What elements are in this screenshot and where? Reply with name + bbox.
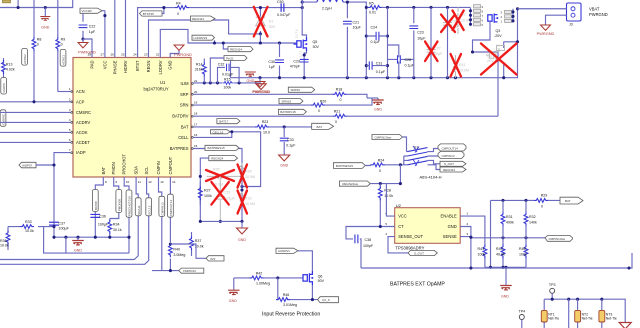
svg-text:3V3: 3V3: [210, 257, 216, 261]
svg-text:ENABLE: ENABLE: [441, 214, 457, 219]
wire: PMON pin9 route: [110, 177, 119, 237]
wire: CMPIN13sw to S1 pole1: [403, 137, 408, 152]
svg-text:C38: C38: [365, 238, 372, 242]
svg-text:C37: C37: [59, 222, 66, 226]
wire: ACDET row: [0, 141, 73, 143]
capacitor C35 0.01uF (DNI) column: [219, 176, 221, 221]
resistor R26 10.0M (DNI): [240, 163, 244, 177]
wire: Q4 source to bus: [503, 62, 505, 78]
svg-text:R34: R34: [113, 223, 120, 227]
DNI X over R30: [238, 191, 248, 214]
wire: CELL row: [193, 132, 232, 138]
svg-text:ACDRV: ACDRV: [76, 120, 91, 125]
svg-text:0: 0: [37, 43, 39, 47]
svg-text:BAT: BAT: [181, 124, 189, 129]
DNI X over C35: [211, 182, 228, 205]
wire: SCL pin12 route: [0, 177, 149, 264]
U1 pin stub circles right: [191, 83, 193, 150]
svg-text:R21: R21: [334, 109, 341, 113]
net label BATPRES15 (S1 row): [333, 163, 365, 169]
svg-text:S_OUT: S_OUT: [414, 252, 424, 256]
svg-text:VCC: VCC: [102, 60, 107, 69]
svg-text:13: 13: [160, 180, 164, 184]
svg-text:Input Reverse Protection: Input Reverse Protection: [262, 312, 320, 318]
wire: J3 pin2 to PWRGND: [546, 15, 567, 24]
svg-text:R29: R29: [541, 194, 548, 198]
wire: rail to ground: [241, 221, 243, 227]
svg-text:C21: C21: [353, 21, 360, 25]
svg-text:U1: U1: [160, 80, 166, 85]
wire: BATDRV row to Q3 gate riser: [193, 115, 498, 117]
svg-text:REGN24: REGN24: [211, 156, 223, 160]
svg-text:R4: R4: [176, 2, 181, 6]
svg-text:ACN: ACN: [76, 89, 85, 94]
resistor R20 0: [311, 103, 325, 107]
ground GND (SRP/SRN filter): [377, 98, 379, 100]
wire: BATPRES row: [193, 149, 242, 222]
node: ACP/R8 junction: [32, 100, 35, 103]
svg-text:18: 18: [194, 112, 198, 116]
svg-text:R25: R25: [213, 168, 220, 172]
DNI X over R11: [451, 54, 462, 77]
svg-text:CMSRC: CMSRC: [2, 113, 6, 125]
svg-text:-20V: -20V: [486, 59, 494, 63]
resistor R8 0: [32, 37, 36, 51]
U1 top pin names (rotated): [90, 60, 173, 75]
svg-text:1.00Meg: 1.00Meg: [256, 281, 270, 285]
port BAT (right): [560, 197, 583, 204]
wire: U2 VCC pin 6: [386, 184, 394, 217]
svg-text:100k: 100k: [478, 253, 486, 257]
resistor R23 10.0: [255, 125, 269, 129]
net label CELL16: [211, 130, 231, 135]
svg-text:Q6: Q6: [318, 274, 323, 278]
svg-text:PHASE: PHASE: [112, 60, 117, 74]
capacitor C22 1uF: [79, 25, 88, 28]
svg-text:R36: R36: [0, 239, 7, 243]
svg-text:0: 0: [177, 12, 179, 16]
ground GND below top bus: [44, 8, 46, 17]
capacitor C50 0.047uF: [281, 3, 284, 11]
resistor R28 10.0k column: [379, 184, 381, 227]
transistor Q3 -20V source pin block: [474, 5, 484, 27]
wire: column x=366.3: [365, 7, 367, 77]
ground GND (ILIM filter): [245, 72, 256, 76]
wire: J3 pin1: [518, 8, 567, 10]
DNI X over R26: [238, 165, 248, 188]
wire: ACP pin wire to x=0: [0, 101, 73, 103]
port BAT: [312, 123, 334, 129]
svg-text:10.0k: 10.0k: [384, 194, 393, 198]
svg-text:470pF: 470pF: [290, 65, 301, 69]
capacitor C32 0.01uF parallel branch: [218, 67, 240, 83]
svg-text:R37: R37: [195, 239, 202, 243]
svg-text:ACDRVx: ACDRVx: [278, 249, 290, 253]
net label BTST25: [140, 11, 163, 16]
wire: CMPOUT pin14 route: [169, 177, 171, 271]
wire: riser x=568.7: [568, 299, 570, 328]
svg-text:D1: D1: [269, 20, 274, 24]
svg-text:ACOK: ACOK: [76, 130, 88, 135]
svg-text:PWRGND: PWRGND: [537, 31, 555, 36]
svg-text:GND: GND: [238, 238, 246, 242]
net label CMPIN13sw: [372, 135, 403, 140]
diode D1 30V (DNI, grey) column: [259, 8, 261, 34]
diode D1 symbol grey: [256, 17, 265, 26]
wire: BATPRES15 to R24 to S1 pole4: [365, 164, 407, 167]
svg-text:23: 23: [144, 53, 148, 57]
wire: C22 column: [82, 13, 84, 39]
net label ACNE1 (vertical): [60, 49, 66, 66]
capacitor C21 10uF column: [346, 2, 348, 78]
resistor R4 0: [175, 6, 189, 10]
net-tie NT2: [577, 299, 579, 328]
resistor R40 3.0Meg: [169, 243, 173, 257]
wire: U2 SENSE pin 3 run: [460, 237, 545, 238]
svg-text:ACDET: ACDET: [76, 140, 90, 145]
net label IADP07: [19, 162, 36, 168]
net label Q1_S: [318, 297, 339, 303]
svg-text:3.01Meg: 3.01Meg: [283, 303, 297, 307]
svg-text:BAT: BAT: [101, 166, 106, 174]
wire: U2 CT pin 5 route: [346, 227, 395, 269]
wire: Q5 source to C29 column: [304, 51, 306, 78]
net label CMPOUT14: [438, 144, 466, 151]
svg-text:PWRGND: PWRGND: [174, 52, 192, 57]
svg-text:R40: R40: [173, 248, 180, 252]
DNI X over R25: [206, 170, 234, 181]
wire: ACDRVx to Q6 drain: [298, 251, 312, 271]
svg-text:100k: 100k: [519, 253, 527, 257]
DNI X over D1: [254, 7, 268, 37]
svg-text:REGN24: REGN24: [230, 47, 242, 51]
svg-text:0: 0: [61, 43, 63, 47]
net label ACPE2 (vertical): [22, 48, 28, 65]
capacitor C37 100uF: [49, 222, 59, 225]
wire: S1 pole left tie: [404, 156, 408, 165]
svg-text:R9: R9: [61, 38, 66, 42]
svg-text:BATPRES15: BATPRES15: [208, 146, 225, 150]
wire: top row y=200.4: [491, 200, 561, 267]
svg-text:VCC2R: VCC2R: [82, 9, 93, 13]
svg-text:0.1µF: 0.1µF: [286, 144, 296, 148]
svg-text:SRN19: SRN19: [282, 99, 292, 103]
wire: power bottom bus y=77.7: [231, 9, 518, 78]
wire: HIDRV column: [125, 0, 127, 58]
svg-text:PWRGND: PWRGND: [589, 12, 608, 17]
node: D1/REGN junction: [259, 32, 262, 35]
svg-text:BATPRES: BATPRES: [170, 146, 189, 151]
svg-text:VCC: VCC: [398, 214, 407, 219]
svg-text:Q1_S: Q1_S: [322, 298, 330, 302]
svg-text:HIDRV: HIDRV: [123, 60, 128, 73]
svg-text:10.0k: 10.0k: [25, 229, 34, 233]
svg-text:GND: GND: [374, 108, 382, 112]
svg-text:11: 11: [138, 180, 141, 184]
svg-text:C36: C36: [99, 215, 106, 219]
svg-text:IADP: IADP: [76, 150, 86, 155]
svg-text:0: 0: [318, 109, 320, 113]
svg-text:U2: U2: [396, 203, 402, 208]
net label SRN19: [279, 99, 303, 104]
net label REGN24 (S1): [440, 167, 466, 172]
svg-text:0: 0: [340, 98, 342, 102]
svg-text:10: 10: [126, 180, 130, 184]
net label LODRV23: [192, 35, 215, 40]
capacitor C29 470pF: [300, 59, 309, 62]
svg-text:BAT17: BAT17: [219, 119, 228, 123]
svg-text:SRP: SRP: [180, 92, 189, 97]
svg-text:PROCHOT010: PROCHOT010: [128, 196, 132, 216]
svg-text:CMPOUT: CMPOUT: [168, 156, 173, 174]
power ground PWRGND at J3: [541, 25, 551, 30]
wire: S1 right pins to labels: [428, 149, 441, 170]
svg-text:CMPOUT14: CMPOUT14: [442, 146, 459, 150]
wire: CMPIN pin13 route: [152, 177, 179, 271]
U1 pin numbers right: [194, 79, 198, 148]
svg-text:R11: R11: [459, 63, 465, 67]
net label SRP20: [288, 87, 314, 92]
svg-text:1µF: 1µF: [89, 30, 96, 34]
capacitor C31 0.1uF (bridging): [366, 65, 387, 67]
svg-text:ILIM: ILIM: [181, 81, 190, 86]
transistor Q4 -20V (DNI, grey): [486, 46, 505, 63]
wire: DNI network bottom rail: [200, 220, 242, 222]
svg-text:5,6,7,8: 5,6,7,8: [295, 29, 299, 38]
net label BAT17: [217, 119, 240, 124]
wire: LODRV column and route to Q5 gate: [160, 29, 297, 57]
svg-text:-20V: -20V: [494, 34, 502, 38]
net label REGN24 (DNI network): [209, 156, 238, 161]
svg-text:26: 26: [110, 53, 114, 57]
capacitor C30 1uF: [275, 60, 284, 63]
svg-text:12: 12: [148, 180, 152, 184]
wire: R42 row: [234, 277, 303, 279]
svg-text:CELL: CELL: [178, 135, 189, 140]
svg-text:Q5: Q5: [313, 40, 318, 44]
node: C22/PAD junction: [81, 37, 84, 40]
resistor R13 4.02k: [3, 58, 5, 78]
svg-text:0.1µF: 0.1µF: [405, 64, 415, 68]
net label Pin21: [224, 56, 247, 61]
svg-text:ACP: ACP: [76, 99, 85, 104]
svg-text:C23: C23: [417, 31, 424, 35]
svg-text:Net-Tie: Net-Tie: [606, 316, 617, 320]
net label CMPIN13sw (right): [545, 236, 573, 242]
svg-text:2.2µH: 2.2µH: [322, 6, 332, 10]
svg-text:SCL: SCL: [144, 166, 149, 175]
wire: U2 SENSE_OUT pin 4 to S_OUT: [388, 237, 408, 253]
svg-text:C30: C30: [268, 60, 275, 64]
ground GND (C33): [279, 155, 290, 161]
svg-text:R20: R20: [320, 99, 327, 103]
svg-text:0.1µF: 0.1µF: [371, 40, 381, 44]
svg-text:BTST: BTST: [135, 60, 140, 71]
svg-text:100k: 100k: [204, 194, 212, 198]
svg-text:R13: R13: [6, 62, 13, 66]
net label ACDRVx: [276, 248, 298, 253]
svg-text:GND: GND: [229, 299, 237, 303]
node: R42/R46 junction: [276, 276, 279, 279]
ground GND (divider): [505, 267, 507, 285]
svg-text:100k: 100k: [223, 86, 231, 90]
svg-text:C32: C32: [218, 62, 225, 66]
svg-text:316k: 316k: [195, 68, 203, 72]
wire: 3V3 pull route: [170, 244, 206, 258]
resistor R32 140k column: [525, 200, 527, 237]
wire: divider ground bus: [485, 266, 526, 268]
net label VADP03 (vertical, left edge): [1, 78, 7, 95]
net label PMON09 (vertical): [116, 190, 122, 213]
svg-text:1,2,3: 1,2,3: [299, 50, 303, 57]
power ground PWRGND above U1 GND pin: [170, 50, 179, 57]
capacitor C36 100uF: [90, 214, 100, 217]
wire: BTST25 label tail: [162, 8, 164, 14]
svg-text:30V: 30V: [269, 25, 276, 29]
svg-text:BAT08: BAT08: [94, 201, 98, 210]
svg-text:GND: GND: [448, 224, 457, 229]
svg-text:C31: C31: [376, 62, 383, 66]
svg-text:IADP07: IADP07: [22, 163, 33, 167]
wire: VCC pin column: [104, 11, 106, 58]
net label CMPIN13 (vertical): [159, 196, 165, 216]
svg-text:16: 16: [194, 133, 198, 137]
resistor R29 0: [534, 199, 548, 203]
resistor R46 3.01Meg: [276, 298, 290, 302]
resistor R36 10.0k (left edge): [7, 227, 9, 250]
svg-text:BTST25: BTST25: [143, 12, 154, 16]
svg-text:CMPIN13sw: CMPIN13sw: [549, 237, 567, 241]
U1 bottom pin names (rotated): [101, 154, 173, 175]
svg-text:30.1k: 30.1k: [113, 228, 122, 232]
svg-text:PMON09: PMON09: [117, 199, 121, 212]
resistor R14 316k column: [203, 59, 205, 83]
net label BATDRV18: [278, 109, 306, 114]
net label BAT08 (vertical): [92, 190, 98, 212]
resistor R5 0.01 sense: [368, 6, 382, 10]
op-amp/IC U1 body: [73, 58, 191, 178]
svg-text:BAT: BAT: [317, 125, 323, 129]
net-tie NT3: [601, 299, 603, 328]
wire: Q6 source down: [311, 285, 313, 300]
svg-text:C22: C22: [89, 25, 96, 29]
resistor R34 30.1k: [108, 220, 112, 234]
U1 pin numbers left: [69, 87, 71, 152]
wire: R5 output run: [382, 6, 471, 8]
power ground PWRGND (under C22): [82, 39, 84, 42]
svg-text:BATPRES EXT OpAMP: BATPRES EXT OpAMP: [390, 281, 445, 287]
wire: BAT row: [193, 126, 312, 128]
resistor R27 100k: [199, 182, 201, 205]
svg-text:GND: GND: [247, 79, 255, 83]
svg-text:BATDRV: BATDRV: [172, 114, 188, 119]
resistor R43 49.9k column: [502, 238, 504, 267]
capacitor C28 0.1uF (bridging): [388, 45, 414, 78]
svg-text:LODRV23: LODRV23: [194, 36, 208, 40]
DNI X over Q4: [481, 44, 517, 75]
U1 right pin names: [170, 81, 190, 151]
ground GND (DNI network): [237, 228, 248, 234]
wire: R9 column x=57.8: [57, 0, 59, 92]
wire: gate rail to BATDRV riser: [473, 52, 499, 116]
svg-text:15: 15: [194, 144, 198, 148]
svg-text:S_OUT: S_OUT: [444, 162, 454, 166]
svg-text:BAT: BAT: [565, 199, 571, 203]
svg-text:0: 0: [541, 205, 543, 209]
wire: Pin21 tail: [210, 58, 224, 83]
net-tie NT1: [543, 299, 545, 328]
svg-text:VBAT: VBAT: [589, 7, 600, 12]
inductor L 2.2uH: [317, 0, 343, 2]
resistor R18 0: [333, 92, 347, 96]
wire: stub up at x=18.1: [17, 0, 19, 8]
node: PHASE node top: [301, 6, 304, 9]
svg-text:R46: R46: [283, 293, 290, 297]
net label S_OUT: [440, 161, 466, 166]
wire: ACN pin wire: [58, 91, 73, 93]
wire: PHASE column: [114, 0, 116, 58]
svg-text:C35: C35: [224, 191, 231, 195]
wire: opamp area bottom rectangle: [361, 253, 632, 268]
wire: VCC2R tail to VCC column: [102, 10, 105, 12]
svg-text:100µF: 100µF: [59, 227, 70, 231]
svg-text:C28: C28: [405, 58, 412, 62]
wire: REGN24sw run: [370, 183, 400, 185]
resistor R31 499k column: [502, 200, 504, 237]
svg-text:0.047µF: 0.047µF: [277, 13, 291, 17]
svg-text:ACPE2: ACPE2: [23, 54, 27, 64]
svg-text:R8: R8: [37, 38, 42, 42]
ground GND (R42): [233, 278, 235, 290]
svg-text:C50: C50: [277, 0, 284, 4]
svg-text:R43: R43: [496, 247, 503, 251]
svg-text:SDA11: SDA11: [137, 205, 141, 215]
wire: column x=387.5: [387, 7, 389, 77]
svg-text:10µF: 10µF: [434, 52, 443, 56]
svg-text:GND: GND: [501, 295, 509, 299]
wire: ACOK row: [0, 131, 73, 133]
svg-text:25: 25: [121, 53, 125, 57]
svg-text:SENSE: SENSE: [443, 234, 457, 239]
svg-text:0.1µF: 0.1µF: [376, 70, 386, 74]
svg-text:100pF: 100pF: [363, 244, 374, 248]
svg-text:CMPIN13: CMPIN13: [160, 202, 164, 215]
svg-text:SRN: SRN: [180, 103, 189, 108]
svg-text:R5: R5: [369, 2, 374, 6]
transistor Q3 symbol: [488, 14, 498, 23]
wire: S1 pole4 riser to REGN24sw line: [399, 165, 401, 184]
svg-text:R31: R31: [506, 215, 513, 219]
svg-text:Net-Tie: Net-Tie: [582, 316, 593, 320]
wire: REGN24 tail stub: [223, 43, 228, 49]
capacitor C33 0.1uF column: [283, 127, 285, 155]
svg-text:CT: CT: [398, 224, 404, 229]
svg-text:GND: GND: [168, 60, 173, 69]
svg-text:0.01µF: 0.01µF: [222, 73, 234, 77]
svg-text:J3: J3: [569, 23, 573, 27]
svg-text:REGN24sw: REGN24sw: [342, 182, 359, 186]
wire: SDA pin11 route: [0, 177, 138, 260]
DNI X over R7: [453, 11, 464, 31]
svg-text:LODRV: LODRV: [158, 60, 163, 74]
wire: riser from Pin21 label area: [230, 61, 232, 78]
resistor R9 0: [56, 37, 60, 51]
DNI X over C27: [425, 42, 438, 62]
svg-text:H6: H6: [496, 44, 500, 48]
svg-text:C24: C24: [371, 25, 378, 29]
svg-text:PAD: PAD: [90, 60, 95, 68]
capacitor C23 10uF column: [413, 7, 415, 77]
